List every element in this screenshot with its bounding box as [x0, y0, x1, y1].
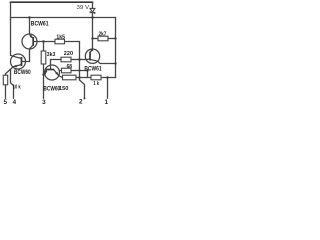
- wire 68 node drop: [87, 71, 89, 78]
- svg-text:1k5: 1k5: [56, 34, 65, 40]
- wire pin 4 with jog: [11, 69, 14, 98]
- resistor 1k: [91, 75, 101, 80]
- wire right rail: [115, 18, 117, 78]
- svg-text:BCW61: BCW61: [84, 66, 101, 73]
- wire 68 row: [71, 70, 88, 72]
- svg-text:BCW60: BCW60: [14, 69, 31, 76]
- wire Q1 base row: [37, 41, 55, 43]
- wire Q3 collector up to 220: [51, 60, 62, 66]
- wire pin 2 jog: [80, 80, 85, 98]
- resistor 2k7: [98, 36, 108, 41]
- wire Q4 base: [80, 59, 87, 61]
- resistor 150: [63, 75, 77, 80]
- svg-text:150: 150: [59, 86, 68, 92]
- resistor 3k3: [41, 51, 46, 64]
- wire Q2 emitter junction: [11, 67, 13, 69]
- wire Q3 emitter2 to 150: [59, 76, 63, 78]
- wire 1k5 to corner node 2: [65, 42, 80, 60]
- svg-text:10 k: 10 k: [13, 84, 22, 90]
- wire Q3 emitter stub: [44, 74, 46, 76]
- resistor 220: [61, 57, 71, 62]
- wire top supply rail: [11, 1, 93, 3]
- wire 10k to pin 5: [5, 85, 7, 98]
- resistor 68: [62, 68, 72, 73]
- svg-text:1 k: 1 k: [93, 81, 99, 87]
- svg-text:BCW60: BCW60: [43, 85, 60, 92]
- svg-text:39 V: 39 V: [77, 5, 90, 11]
- transistor Q1 BCW61: [22, 34, 37, 49]
- wire zener bottom lead: [92, 13, 94, 18]
- transistor Q4 BCW61: [85, 49, 99, 64]
- wire inner rail: [11, 17, 116, 19]
- svg-text:220: 220: [64, 51, 73, 57]
- junction dots: [28, 16, 116, 99]
- wire Q4 emitter feed: [92, 18, 94, 50]
- svg-text:5: 5: [3, 99, 7, 106]
- wire 2k7 right: [108, 38, 116, 40]
- wire Q4 collector to rail: [98, 61, 116, 63]
- wire 220 to node 2: [71, 59, 80, 61]
- svg-text:3: 3: [42, 99, 46, 106]
- transistor Q2 BCW60: [11, 54, 26, 69]
- wire 1k to rail: [101, 77, 116, 79]
- resistor 10k: [3, 75, 7, 85]
- wire emitter to 10k: [6, 69, 11, 75]
- wire Q1 emitter to rail: [29, 18, 31, 35]
- zener diode 39V: [90, 8, 95, 14]
- wire Q3 base stub: [54, 70, 62, 71]
- transistor Q3 BCW60 dual emitter: [44, 65, 60, 80]
- svg-text:1: 1: [105, 99, 109, 106]
- svg-text:2k7: 2k7: [99, 31, 107, 37]
- wire zener top lead: [92, 2, 94, 8]
- svg-text:3k3: 3k3: [47, 52, 56, 58]
- wire node 2 column: [79, 60, 81, 81]
- wire 3k3 drop: [43, 42, 45, 52]
- wire 3k3 to pin 3: [43, 64, 45, 98]
- wire left supply drop: [10, 2, 12, 55]
- svg-text:4: 4: [13, 99, 17, 106]
- svg-text:2: 2: [79, 99, 83, 106]
- wire 150 to 1k: [76, 77, 91, 79]
- wire Q1 collector to Q2 base: [26, 49, 30, 62]
- svg-text:68: 68: [67, 64, 72, 70]
- wire pin 1: [107, 78, 109, 99]
- wire 2k7 left: [93, 38, 99, 40]
- svg-text:BCW61: BCW61: [31, 20, 49, 27]
- resistor 1k5: [55, 39, 65, 44]
